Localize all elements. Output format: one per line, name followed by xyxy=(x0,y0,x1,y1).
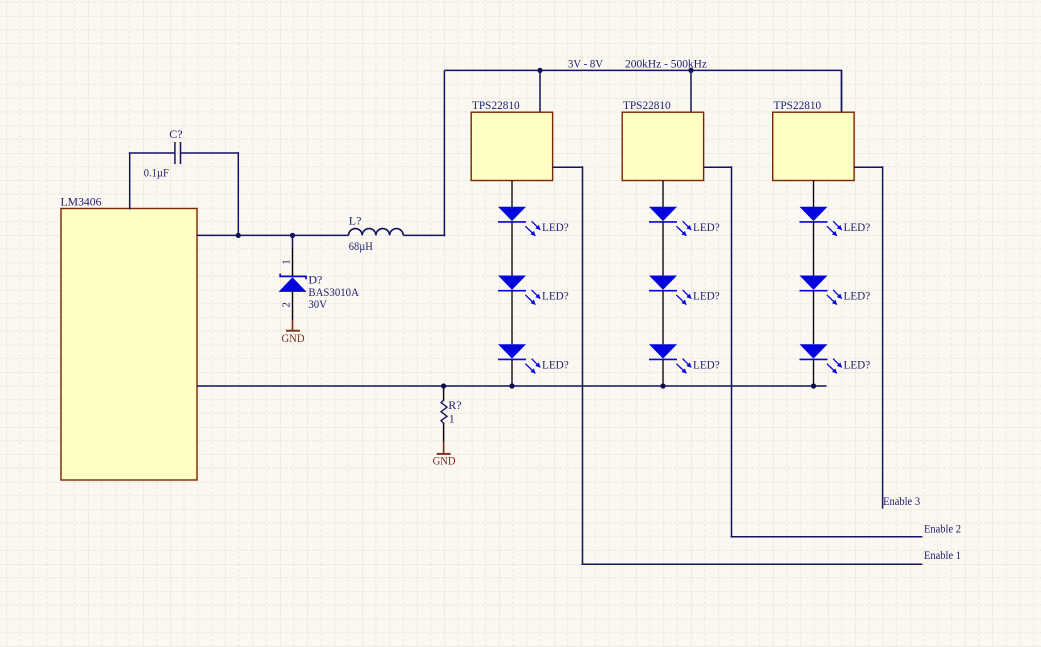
LED D33 (LED?) xyxy=(800,344,842,373)
junction node bus/U2 xyxy=(688,68,693,73)
svg-text:1: 1 xyxy=(449,412,455,426)
label LED? (3,2) xyxy=(844,289,871,303)
wire LED string 3 to feedback bus xyxy=(813,360,815,386)
ground symbol for resistor xyxy=(437,442,451,454)
label LED? (1,1) xyxy=(542,220,569,234)
label LED? (2,2) xyxy=(693,289,720,303)
pin number 2 (diode anode) xyxy=(281,302,293,308)
svg-text:LED?: LED? xyxy=(844,289,871,303)
designator label R? xyxy=(448,398,461,412)
LED D23 (LED?) xyxy=(649,344,691,373)
junction node string 2/feedback bus xyxy=(660,383,665,388)
svg-text:LED?: LED? xyxy=(542,220,569,234)
wire LED string segment xyxy=(662,222,664,276)
svg-text:LED?: LED? xyxy=(542,289,569,303)
designator label TPS22810 (U1) xyxy=(472,98,520,112)
wire bus down to U1 VIN pin xyxy=(539,70,541,112)
svg-text:LM3406: LM3406 xyxy=(61,195,102,209)
svg-text:30V: 30V xyxy=(308,297,327,311)
svg-text:Enable 3: Enable 3 xyxy=(883,494,920,508)
pin wire U3 VOUT to LED string xyxy=(813,181,815,208)
ground label GND xyxy=(433,453,456,467)
load switch U1 TPS22810 body xyxy=(471,112,552,180)
inductor L? 68uH coil xyxy=(349,229,404,236)
svg-text:LED?: LED? xyxy=(693,289,720,303)
svg-text:L?: L? xyxy=(349,214,362,228)
part label BAS3010A xyxy=(308,285,359,299)
wire bottom feedback bus from LM3406 xyxy=(197,385,827,387)
svg-text:LED?: LED? xyxy=(542,357,569,371)
junction node capacitor/SW xyxy=(236,233,241,238)
label LED? (3,3) xyxy=(844,357,871,371)
value label 1 xyxy=(449,412,455,426)
wire enable 2 horizontal xyxy=(731,536,923,538)
junction node resistor/feedback xyxy=(441,383,446,388)
label LED? (2,3) xyxy=(693,357,720,371)
wire LED string segment xyxy=(511,222,513,276)
LED D11 (LED?) xyxy=(498,207,540,236)
wire diode anode down xyxy=(292,292,294,321)
svg-text:68µH: 68µH xyxy=(349,239,373,253)
label LED? (2,1) xyxy=(693,220,720,234)
svg-text:LED?: LED? xyxy=(844,357,871,371)
LED D22 (LED?) xyxy=(649,275,691,304)
ground symbol for diode xyxy=(286,320,300,331)
svg-text:C?: C? xyxy=(169,127,182,141)
IC U? LM3406 buck LED driver body xyxy=(61,209,197,481)
wire capacitor left lead xyxy=(129,152,175,154)
svg-text:TPS22810: TPS22810 xyxy=(774,98,822,112)
designator label TPS22810 (U3) xyxy=(774,98,822,112)
wire SW output of LM3406 to inductor xyxy=(197,234,349,236)
designator label D? xyxy=(308,272,322,286)
load switch U2 TPS22810 body xyxy=(622,112,703,180)
value label 30V xyxy=(308,297,327,311)
LED D21 (LED?) xyxy=(649,207,691,236)
designator label LM3406 xyxy=(61,195,102,209)
diode D? BAS3010A schottky symbol xyxy=(279,274,307,292)
wire LED string segment xyxy=(813,291,815,345)
designator label C? xyxy=(169,127,182,141)
svg-text:LED?: LED? xyxy=(844,220,871,234)
wire inductor to top bus corner xyxy=(403,70,445,236)
resistor R? xyxy=(441,386,447,423)
wire U1 enable pin out xyxy=(553,166,583,168)
LED D32 (LED?) xyxy=(800,275,842,304)
designator label L? xyxy=(349,214,362,228)
wire bus down to U2 VIN pin xyxy=(690,70,692,112)
wire LED string 1 to feedback bus xyxy=(511,360,513,386)
wire LED string segment xyxy=(511,291,513,345)
wire from capacitor down to SW node xyxy=(237,152,239,235)
junction node string 3/feedback bus xyxy=(811,383,816,388)
svg-text:TPS22810: TPS22810 xyxy=(623,98,671,112)
wire capacitor right lead xyxy=(181,152,238,154)
LED D13 (LED?) xyxy=(498,344,540,373)
wire SW node down to diode cathode xyxy=(292,235,294,276)
junction node diode/SW xyxy=(290,233,295,238)
junction node bus/U1 xyxy=(537,68,542,73)
wire enable 2 vertical xyxy=(731,166,733,536)
wire LED string segment xyxy=(662,291,664,345)
value label 68uH xyxy=(349,239,373,253)
svg-text:GND: GND xyxy=(433,453,456,467)
wire bus down to U3 VIN pin xyxy=(841,70,843,112)
LED D12 (LED?) xyxy=(498,275,540,304)
svg-text:R?: R? xyxy=(448,398,461,412)
svg-text:LED?: LED? xyxy=(693,357,720,371)
LED D31 (LED?) xyxy=(800,207,842,236)
ground label GND xyxy=(282,331,305,345)
pin wire U2 VOUT to LED string xyxy=(662,181,664,208)
wire U2 enable pin out xyxy=(704,166,732,168)
label LED? (3,1) xyxy=(844,220,871,234)
wire enable 3 vertical xyxy=(882,166,884,508)
svg-text:GND: GND xyxy=(282,331,305,345)
label LED? (1,3) xyxy=(542,357,569,371)
wire resistor to ground xyxy=(443,423,445,442)
wire top supply bus 3V-8V xyxy=(444,70,842,112)
net label 200kHz - 500kHz xyxy=(625,57,707,71)
wire enable 1 vertical xyxy=(582,166,584,564)
label LED? (1,2) xyxy=(542,289,569,303)
wire LED string segment xyxy=(813,222,815,276)
svg-text:Enable 2: Enable 2 xyxy=(924,522,961,536)
svg-text:TPS22810: TPS22810 xyxy=(472,98,520,112)
value label 0.1uF xyxy=(144,165,169,179)
net label Enable 2 xyxy=(924,522,961,536)
wire U3 enable pin out xyxy=(854,166,883,168)
net label Enable 1 xyxy=(924,548,961,562)
load switch U3 TPS22810 body xyxy=(773,112,854,180)
svg-text:Enable 1: Enable 1 xyxy=(924,548,961,562)
wire enable 1 horizontal xyxy=(582,563,923,565)
svg-text:0.1µF: 0.1µF xyxy=(144,165,169,179)
junction node string 1/feedback bus xyxy=(509,383,514,388)
svg-text:LED?: LED? xyxy=(693,220,720,234)
wire VCC pin top of LM3406 up to capacitor net xyxy=(129,153,131,210)
pin number 1 (diode cathode) xyxy=(281,259,293,265)
net label Enable 3 xyxy=(883,494,920,508)
capacitor C? plates xyxy=(175,142,181,164)
wire LED string 2 to feedback bus xyxy=(662,360,664,386)
svg-text:1: 1 xyxy=(281,259,293,265)
svg-text:2: 2 xyxy=(281,302,293,308)
designator label TPS22810 (U2) xyxy=(623,98,671,112)
net label 3V - 8V xyxy=(568,57,603,71)
pin wire U1 VOUT to LED string xyxy=(511,181,513,208)
svg-text:200kHz - 500kHz: 200kHz - 500kHz xyxy=(625,57,707,71)
svg-text:3V - 8V: 3V - 8V xyxy=(568,57,603,71)
